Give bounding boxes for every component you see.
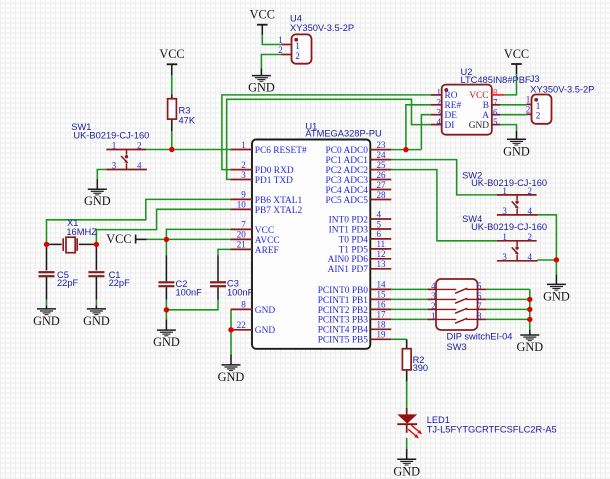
svg-text:2: 2 xyxy=(431,301,436,311)
svg-text:UK-B0219-CJ-160: UK-B0219-CJ-160 xyxy=(471,178,547,188)
svg-text:R3: R3 xyxy=(179,105,191,115)
svg-text:PC0 ADC0: PC0 ADC0 xyxy=(326,146,369,156)
svg-text:GND: GND xyxy=(255,306,276,316)
svg-text:17: 17 xyxy=(377,310,387,320)
svg-text:26: 26 xyxy=(377,170,387,180)
svg-text:RE#: RE# xyxy=(445,101,462,111)
svg-text:GND: GND xyxy=(218,370,245,384)
svg-text:100nF: 100nF xyxy=(176,288,203,298)
svg-text:GND: GND xyxy=(153,335,180,349)
svg-text:2: 2 xyxy=(295,51,300,61)
svg-text:3: 3 xyxy=(502,206,507,216)
svg-text:VCC: VCC xyxy=(504,47,529,61)
svg-text:22pF: 22pF xyxy=(57,278,79,288)
svg-text:PCINT5 PB5: PCINT5 PB5 xyxy=(318,336,369,346)
svg-text:T0 PD4: T0 PD4 xyxy=(339,235,369,245)
svg-text:PCINT4 PB4: PCINT4 PB4 xyxy=(318,326,369,336)
svg-text:VCC: VCC xyxy=(250,8,275,22)
svg-text:3: 3 xyxy=(241,170,246,180)
svg-text:INT0 PD2: INT0 PD2 xyxy=(329,215,369,225)
svg-text:PD1 TXD: PD1 TXD xyxy=(255,176,293,186)
svg-text:GND: GND xyxy=(469,121,490,131)
svg-text:1: 1 xyxy=(431,311,436,321)
svg-text:9: 9 xyxy=(241,190,246,200)
svg-text:T1 PD5: T1 PD5 xyxy=(339,245,369,255)
svg-text:19: 19 xyxy=(377,330,387,340)
svg-text:11: 11 xyxy=(377,239,386,249)
svg-text:PCINT3 PB3: PCINT3 PB3 xyxy=(318,316,369,326)
svg-text:DI: DI xyxy=(445,121,455,131)
svg-text:UK-B0219-CJ-160: UK-B0219-CJ-160 xyxy=(471,222,547,232)
svg-text:15: 15 xyxy=(377,290,387,300)
svg-text:1: 1 xyxy=(437,88,442,98)
svg-text:4: 4 xyxy=(377,209,382,219)
svg-text:GND: GND xyxy=(393,464,420,478)
svg-text:1: 1 xyxy=(112,141,117,151)
svg-text:6: 6 xyxy=(493,107,498,117)
svg-text:GND: GND xyxy=(516,340,543,354)
svg-text:6: 6 xyxy=(477,291,482,301)
svg-text:XY350V-3.5-2P: XY350V-3.5-2P xyxy=(290,23,354,33)
svg-text:8: 8 xyxy=(241,300,246,310)
svg-text:4: 4 xyxy=(431,281,436,291)
svg-text:LTC485IN8#PBF: LTC485IN8#PBF xyxy=(461,75,531,85)
svg-text:INT1 PD3: INT1 PD3 xyxy=(329,225,369,235)
svg-text:PC4 ADC4: PC4 ADC4 xyxy=(326,186,369,196)
svg-text:GND: GND xyxy=(543,289,570,303)
svg-text:3: 3 xyxy=(437,107,442,117)
svg-text:AREF: AREF xyxy=(255,246,279,256)
svg-text:PC2 ADC2: PC2 ADC2 xyxy=(326,166,369,176)
svg-text:5: 5 xyxy=(377,219,382,229)
svg-text:VCC: VCC xyxy=(159,47,184,61)
svg-text:GND: GND xyxy=(255,326,276,336)
svg-text:13: 13 xyxy=(377,259,387,269)
svg-text:47K: 47K xyxy=(179,116,196,126)
svg-text:AIN1 PD7: AIN1 PD7 xyxy=(328,265,369,275)
svg-text:PB6 XTAL1: PB6 XTAL1 xyxy=(255,196,303,206)
svg-text:23: 23 xyxy=(377,140,387,150)
svg-text:5: 5 xyxy=(493,117,498,127)
svg-text:7: 7 xyxy=(477,301,482,311)
svg-text:1: 1 xyxy=(502,232,507,242)
svg-text:PCINT1 PB1: PCINT1 PB1 xyxy=(318,296,369,306)
svg-text:2: 2 xyxy=(528,232,533,242)
svg-text:GND: GND xyxy=(248,81,275,95)
svg-text:GND: GND xyxy=(84,194,111,208)
svg-text:VCC: VCC xyxy=(469,91,488,101)
svg-text:SW3: SW3 xyxy=(447,342,467,352)
svg-text:1: 1 xyxy=(278,35,283,45)
svg-text:VCC: VCC xyxy=(255,226,274,236)
svg-text:10: 10 xyxy=(237,200,247,210)
svg-text:4: 4 xyxy=(437,117,442,127)
svg-text:1: 1 xyxy=(295,41,300,51)
svg-text:PC1 ADC1: PC1 ADC1 xyxy=(326,156,369,166)
svg-text:2: 2 xyxy=(536,111,541,121)
svg-text:2: 2 xyxy=(241,160,246,170)
svg-text:B: B xyxy=(483,101,489,111)
svg-text:GND: GND xyxy=(83,314,110,328)
svg-text:VCC: VCC xyxy=(106,232,131,246)
svg-text:DE: DE xyxy=(445,111,458,121)
svg-text:4: 4 xyxy=(137,161,142,171)
svg-text:1: 1 xyxy=(526,95,531,105)
svg-text:PCINT2 PB2: PCINT2 PB2 xyxy=(318,306,369,316)
svg-text:24: 24 xyxy=(377,150,387,160)
svg-text:GND: GND xyxy=(503,144,530,158)
svg-text:390: 390 xyxy=(413,363,429,373)
svg-text:2: 2 xyxy=(137,141,142,151)
svg-text:20: 20 xyxy=(237,230,247,240)
svg-text:18: 18 xyxy=(377,320,387,330)
svg-text:2: 2 xyxy=(526,105,531,115)
svg-text:25: 25 xyxy=(377,160,387,170)
svg-text:XY350V-3.5-2P: XY350V-3.5-2P xyxy=(530,84,594,94)
svg-text:3: 3 xyxy=(431,291,436,301)
svg-text:7: 7 xyxy=(241,220,246,230)
svg-text:ATMEGA328P-PU: ATMEGA328P-PU xyxy=(305,128,381,138)
svg-text:J3: J3 xyxy=(530,74,540,84)
svg-text:AVCC: AVCC xyxy=(255,236,280,246)
svg-text:RO: RO xyxy=(445,91,458,101)
svg-text:1: 1 xyxy=(241,140,246,150)
svg-text:22: 22 xyxy=(237,320,246,330)
svg-text:3: 3 xyxy=(502,252,507,262)
svg-text:PB7 XTAL2: PB7 XTAL2 xyxy=(255,206,303,216)
svg-text:28: 28 xyxy=(377,190,387,200)
svg-text:12: 12 xyxy=(377,249,386,259)
svg-text:PCINT0 PB0: PCINT0 PB0 xyxy=(318,286,369,296)
svg-text:2: 2 xyxy=(278,45,283,55)
svg-text:7: 7 xyxy=(493,97,498,107)
svg-text:GND: GND xyxy=(33,314,60,328)
svg-text:16: 16 xyxy=(377,300,387,310)
svg-text:DIP switchEI-04: DIP switchEI-04 xyxy=(447,332,513,342)
svg-text:A: A xyxy=(482,111,489,121)
svg-text:8: 8 xyxy=(477,311,482,321)
svg-text:PC3 ADC3: PC3 ADC3 xyxy=(326,176,369,186)
svg-text:PC5 ADC5: PC5 ADC5 xyxy=(326,196,369,206)
svg-text:22pF: 22pF xyxy=(109,278,131,288)
svg-text:AIN0 PD6: AIN0 PD6 xyxy=(328,255,369,265)
svg-text:PD0 RXD: PD0 RXD xyxy=(255,166,294,176)
svg-text:4: 4 xyxy=(528,206,533,216)
svg-text:27: 27 xyxy=(377,180,387,190)
svg-text:3: 3 xyxy=(112,161,117,171)
svg-text:UK-B0219-CJ-160: UK-B0219-CJ-160 xyxy=(73,130,149,140)
svg-text:4: 4 xyxy=(528,252,533,262)
svg-text:TJ-L5FYTGCRTFCSFLC2R-A5: TJ-L5FYTGCRTFCSFLC2R-A5 xyxy=(427,425,557,435)
svg-text:2: 2 xyxy=(437,97,442,107)
svg-text:100nF: 100nF xyxy=(227,288,254,298)
svg-text:14: 14 xyxy=(377,280,387,290)
svg-text:16MHZ: 16MHZ xyxy=(66,227,97,237)
svg-text:8: 8 xyxy=(493,88,498,98)
svg-text:21: 21 xyxy=(237,240,246,250)
svg-text:PC6 RESET#: PC6 RESET# xyxy=(255,146,307,156)
svg-text:6: 6 xyxy=(377,229,382,239)
svg-text:5: 5 xyxy=(477,281,482,291)
svg-text:1: 1 xyxy=(536,101,541,111)
